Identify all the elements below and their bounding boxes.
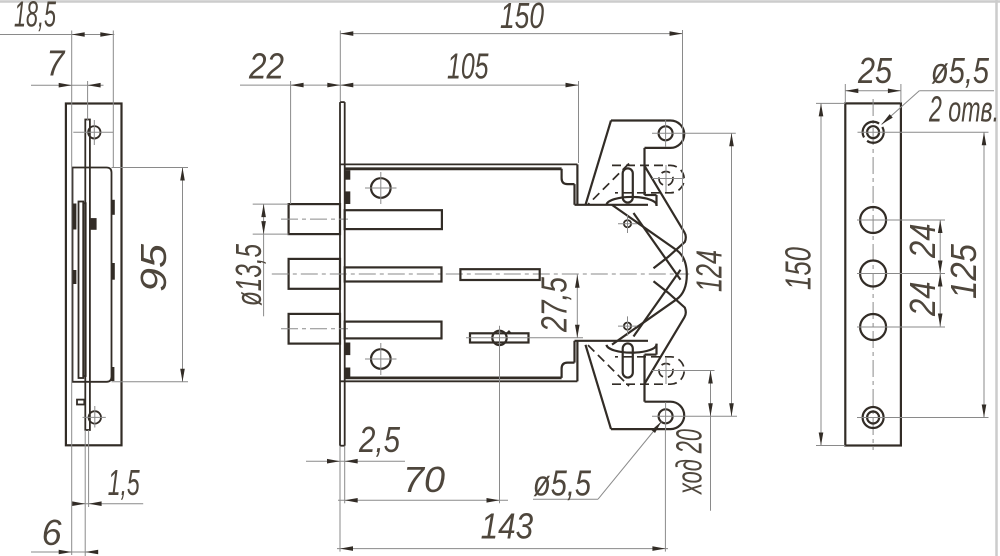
svg-text:143: 143: [481, 506, 533, 547]
top screw hole: [858, 122, 989, 143]
dimension 24 lower: [902, 274, 943, 327]
drawing frame right border: [995, 0, 998, 556]
bolt stub 1: [281, 204, 348, 234]
svg-text:2 отв.: 2 отв.: [928, 89, 999, 130]
inner strip stack: [73, 200, 115, 381]
bottom claw fold edge: [645, 281, 686, 384]
top slot: [623, 168, 633, 202]
bottom claw inner edge: [634, 270, 681, 337]
top dashed retracted diagonal: [588, 164, 629, 205]
top dashed retracted tab: [612, 165, 684, 192]
bottom dashed hole: [652, 357, 715, 384]
central slide bar: [77, 120, 90, 431]
slide piece: [460, 269, 539, 280]
svg-text:6: 6: [42, 512, 63, 553]
svg-text:105: 105: [447, 46, 489, 87]
svg-text:25: 25: [857, 50, 893, 91]
bolt stub 3: [281, 314, 348, 344]
dimension 105: [340, 46, 578, 164]
bottom hump boss: [607, 344, 657, 353]
claw chevron front edge: [612, 205, 687, 345]
bottom screw hole: [857, 407, 989, 428]
svg-text:24: 24: [902, 282, 943, 317]
lock case right top edge: [575, 164, 649, 204]
svg-text:150: 150: [500, 0, 544, 36]
top tab hole: [652, 120, 736, 147]
lock case top edge: [340, 164, 577, 184]
svg-text:24: 24: [902, 224, 943, 259]
dimension 95: [112, 168, 189, 382]
lock case right bottom edge: [575, 341, 649, 382]
dimension o13,5: [228, 204, 289, 316]
svg-text:70: 70: [403, 459, 445, 500]
svg-text:2,5: 2,5: [358, 419, 401, 460]
cam piece: [466, 326, 583, 504]
svg-text:ход 20: ход 20: [669, 429, 710, 495]
svg-text:125: 125: [943, 243, 984, 299]
dimension 70: [338, 459, 508, 503]
dimension 24 upper: [902, 220, 943, 274]
bottom pin: [618, 316, 637, 335]
label o5,5 right with leader: [880, 50, 994, 126]
svg-text:150: 150: [778, 247, 819, 290]
dimension 22: [240, 46, 340, 205]
svg-text:27,5: 27,5: [534, 276, 575, 333]
case screw hole top: [365, 172, 397, 204]
bolt bar 1: [345, 210, 442, 229]
top claw tab: [611, 121, 684, 207]
dimension 7: [31, 43, 104, 121]
svg-text:7: 7: [46, 43, 66, 84]
dimension 6: [31, 512, 98, 554]
dimension 150 right: [778, 103, 846, 445]
faceplate side outline: [66, 104, 122, 446]
label o5,5 middle: [533, 420, 663, 503]
lock case bottom edge: [340, 363, 577, 382]
plate centerline: [872, 99, 874, 450]
svg-text:95: 95: [133, 243, 174, 292]
bolt bar 3: [345, 322, 442, 339]
bottom claw tab: [611, 344, 684, 430]
bottom tab hole: [652, 402, 737, 430]
dimension 150 top: [340, 0, 682, 262]
bottom dashed retracted diagonal: [588, 345, 629, 386]
bottom claw diagonal: [586, 345, 612, 429]
svg-text:ø5,5: ø5,5: [931, 50, 990, 91]
top claw fold edge: [645, 166, 686, 268]
drawing frame top border: [0, 0, 1000, 3]
main centerline: [272, 273, 690, 275]
dimension 124: [689, 133, 734, 416]
top screw circle: [73, 120, 113, 145]
dimension 143: [337, 430, 668, 552]
svg-text:ø13,5: ø13,5: [228, 243, 269, 306]
big hole 2: [857, 261, 945, 287]
dimension 1,5: [72, 430, 143, 556]
dimension 125: [943, 132, 986, 417]
svg-text:ø5,5: ø5,5: [533, 463, 592, 504]
top pin: [618, 214, 637, 233]
svg-text:1,5: 1,5: [108, 462, 141, 503]
big hole 1: [857, 207, 945, 233]
inner pocket: [73, 168, 112, 382]
bottom slot: [623, 343, 633, 377]
svg-text:18,5: 18,5: [14, 0, 57, 35]
svg-text:22: 22: [248, 46, 284, 87]
bottom screw circle: [83, 406, 106, 428]
faceplate hook tabs: [345, 170, 350, 377]
top claw inner edge: [634, 213, 681, 280]
top dashed hole: [652, 165, 684, 192]
dimension hod 20: [669, 371, 713, 511]
top hump boss: [607, 197, 657, 206]
strike plate outline: [845, 103, 901, 445]
big hole 3: [857, 314, 945, 340]
svg-text:124: 124: [689, 250, 730, 292]
bolt stub 2: [289, 259, 340, 289]
bottom dashed retracted tab: [612, 357, 684, 384]
case screw hole bottom: [365, 343, 397, 375]
dimension 2,5: [306, 419, 405, 552]
top claw diagonal: [586, 121, 612, 205]
label 2 otv: [928, 89, 999, 130]
dimension 18,5: [0, 0, 114, 555]
bolt bar 2: [345, 267, 442, 281]
dimension 27,5: [534, 274, 580, 338]
dimension 25: [845, 50, 901, 103]
faceplate front bar: [340, 102, 345, 446]
